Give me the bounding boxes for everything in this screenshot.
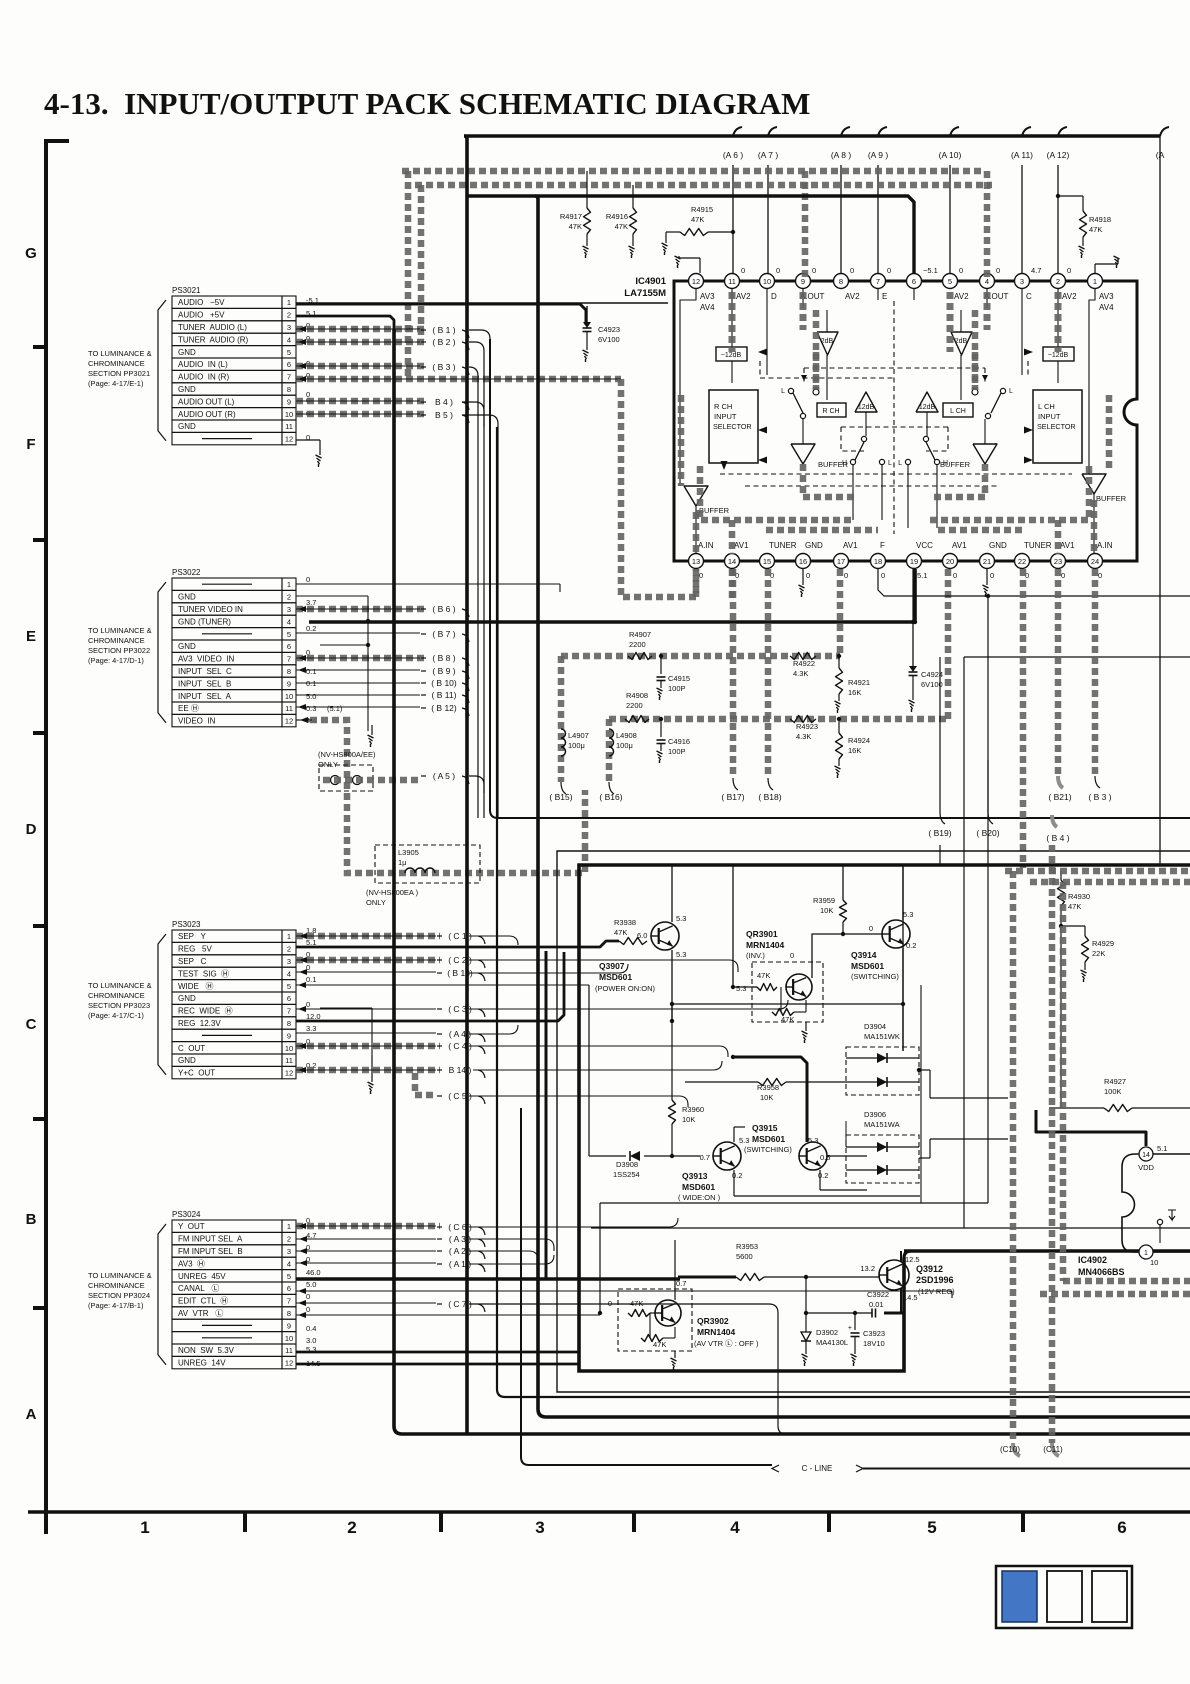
shield trace IC4902 dashed frame	[1040, 882, 1190, 1294]
svg-text:8: 8	[287, 667, 291, 676]
capacitor C4923	[583, 306, 621, 362]
svg-text:10: 10	[285, 410, 293, 419]
transistor QR3901 dashed module	[752, 962, 823, 1022]
svg-text:Q3915: Q3915	[752, 1123, 778, 1133]
svg-text:D: D	[771, 292, 777, 301]
svg-text:( B 10): ( B 10)	[431, 678, 457, 688]
label TO LUMINANCE PP3023	[88, 981, 152, 1020]
wire pin9 to B10	[296, 682, 420, 684]
svg-text:2: 2	[347, 1518, 356, 1537]
svg-text:GND: GND	[178, 994, 196, 1003]
svg-text:R3938: R3938	[614, 918, 636, 927]
svg-text:Q3914: Q3914	[851, 950, 877, 960]
wire pin7 to C7	[296, 1300, 436, 1306]
svg-text:TO LUMINANCE &: TO LUMINANCE &	[88, 1271, 152, 1280]
node B9	[421, 666, 469, 679]
svg-text:47K: 47K	[691, 215, 704, 224]
svg-text:0: 0	[776, 266, 780, 275]
transistor Q3907	[651, 914, 686, 959]
svg-text:R4924: R4924	[848, 736, 870, 745]
svg-text:B 4 ): B 4 )	[435, 397, 453, 407]
amp 12dB left	[855, 392, 877, 412]
svg-text:19: 19	[910, 557, 918, 566]
svg-text:REC WIDE Ⓗ: REC WIDE Ⓗ	[178, 1007, 233, 1016]
svg-text:AV4: AV4	[700, 303, 715, 312]
svg-text:18: 18	[874, 557, 882, 566]
resistor R3938	[614, 918, 647, 945]
svg-text:( B16): ( B16)	[599, 792, 622, 802]
node A3	[437, 1234, 485, 1247]
svg-text:12: 12	[285, 1359, 293, 1368]
wire A5 tail	[469, 776, 484, 793]
connector PS3023	[158, 920, 296, 1079]
wire reg box top	[904, 1251, 1190, 1258]
svg-text:10: 10	[285, 692, 293, 701]
svg-text:5: 5	[287, 348, 291, 357]
svg-text:20: 20	[946, 557, 954, 566]
shield trace drop to pin4	[972, 171, 987, 395]
svg-text:(12V REG): (12V REG)	[918, 1287, 955, 1296]
svg-text:0: 0	[1061, 571, 1065, 580]
svg-text:2: 2	[287, 945, 291, 954]
svg-text:12dB: 12dB	[858, 404, 875, 411]
svg-text:REG 12.3V: REG 12.3V	[178, 1019, 221, 1028]
svg-text:PS3022: PS3022	[172, 568, 201, 577]
svg-text:10: 10	[1150, 1258, 1158, 1267]
svg-text:FM INPUT SEL B: FM INPUT SEL B	[178, 1247, 243, 1256]
svg-text:D3904: D3904	[864, 1022, 886, 1031]
svg-text:AUDIO OUT (R): AUDIO OUT (R)	[178, 410, 236, 419]
svg-text:3: 3	[287, 323, 291, 332]
svg-text:0: 0	[953, 571, 957, 580]
shield trace top horizontal 2	[415, 182, 992, 189]
diode D3906 module	[846, 1110, 930, 1183]
svg-text:0: 0	[850, 266, 854, 275]
svg-text:18V10: 18V10	[863, 1339, 885, 1348]
svg-text:AUDIO +5V: AUDIO +5V	[178, 311, 225, 320]
wire VCC feed top	[467, 196, 914, 274]
svg-text:100μ: 100μ	[568, 741, 585, 750]
svg-text:( B 12): ( B 12)	[431, 703, 457, 713]
svg-text:AV4: AV4	[1099, 303, 1114, 312]
node B13	[437, 968, 485, 981]
svg-text:10K: 10K	[682, 1115, 695, 1124]
shielded wire pin12 VIDEO IN	[296, 717, 585, 873]
wire pin4 to A1	[296, 1260, 436, 1266]
svg-text:1: 1	[1144, 1250, 1148, 1257]
svg-text:100P: 100P	[668, 684, 686, 693]
svg-text:INPUT: INPUT	[714, 412, 737, 421]
svg-text:SECTION PP3024: SECTION PP3024	[88, 1291, 150, 1300]
svg-text:( B20): ( B20)	[976, 828, 999, 838]
svg-text:R4908: R4908	[626, 691, 648, 700]
svg-text:0: 0	[306, 433, 310, 442]
node B4 lower	[1046, 815, 1069, 843]
node C6	[437, 1222, 485, 1235]
svg-text:AV1: AV1	[734, 541, 749, 550]
wire pin19 VCC stub	[912, 569, 915, 622]
node B21	[1048, 792, 1071, 802]
wire B5 tail	[462, 415, 498, 818]
wire EE line right	[921, 657, 1190, 1228]
svg-text:46.0: 46.0	[306, 1268, 321, 1277]
svg-text:7: 7	[876, 277, 880, 286]
box outer thin	[557, 851, 1190, 1392]
svg-text:3: 3	[535, 1518, 544, 1537]
svg-text:5.3: 5.3	[676, 950, 686, 959]
svg-text:(Page: 4-17/E-1): (Page: 4-17/E-1)	[88, 379, 144, 388]
svg-text:TUNER VIDEO IN: TUNER VIDEO IN	[178, 605, 243, 614]
svg-text:R4915: R4915	[691, 205, 713, 214]
wire pin8 REG12.3 heavy	[296, 952, 564, 1021]
QR3901 lower resistor 47K	[772, 987, 806, 1024]
svg-text:0: 0	[990, 571, 994, 580]
svg-text:C3922: C3922	[867, 1290, 889, 1299]
svg-text:16K: 16K	[848, 688, 861, 697]
svg-text:0.1: 0.1	[306, 667, 316, 676]
svg-text:L: L	[888, 460, 892, 467]
svg-text:12: 12	[692, 277, 700, 286]
IC4902 pin 14	[1138, 1144, 1167, 1172]
buffer left mid	[791, 444, 849, 469]
svg-text:(POWER ON:ON): (POWER ON:ON)	[595, 984, 655, 993]
svg-text:R3953: R3953	[736, 1242, 758, 1251]
wire pin11 NON SW heavy	[296, 1351, 579, 1354]
IC4902 pin 1	[1139, 1245, 1158, 1267]
svg-text:UNREG 14V: UNREG 14V	[178, 1359, 226, 1368]
column numbers	[140, 1518, 1126, 1537]
svg-text:SEP Y: SEP Y	[178, 932, 207, 941]
svg-text:0: 0	[869, 924, 873, 933]
svg-text:3.0: 3.0	[306, 1336, 316, 1345]
svg-text:1: 1	[140, 1518, 149, 1537]
svg-text:47K: 47K	[614, 928, 627, 937]
svg-text:100P: 100P	[668, 747, 686, 756]
svg-text:4: 4	[287, 335, 291, 344]
svg-text:R4918: R4918	[1089, 215, 1111, 224]
svg-text:GND: GND	[178, 642, 196, 651]
svg-text:Q3913: Q3913	[682, 1171, 708, 1181]
svg-text:11: 11	[285, 1056, 293, 1065]
svg-text:FM INPUT SEL A: FM INPUT SEL A	[178, 1235, 243, 1244]
svg-text:AV3: AV3	[1099, 292, 1114, 301]
resistor R4923	[790, 716, 818, 742]
shield trace right top pair	[1005, 871, 1190, 882]
IC4901 shield snake left	[681, 292, 878, 554]
svg-text:GND: GND	[178, 422, 196, 431]
svg-text:(A 10): (A 10)	[939, 150, 962, 160]
page indicator boxes	[996, 1566, 1132, 1628]
shield trace C10 drop	[1013, 871, 1020, 1456]
svg-text:L: L	[781, 388, 785, 395]
node B1	[421, 325, 469, 338]
node B17	[721, 569, 744, 802]
svg-text:2dB: 2dB	[955, 338, 968, 345]
svg-text:VDD: VDD	[1138, 1163, 1154, 1172]
svg-text:3: 3	[287, 1247, 291, 1256]
shield trace R-ch loop to pin13	[621, 379, 696, 597]
svg-text:22: 22	[1018, 557, 1026, 566]
svg-text:0: 0	[741, 266, 745, 275]
svg-text:AV2: AV2	[954, 292, 969, 301]
shielded wire pin3 to B1	[296, 326, 424, 332]
svg-text:3: 3	[287, 605, 291, 614]
box inner heavy	[579, 865, 1190, 1371]
svg-text:21: 21	[983, 557, 991, 566]
svg-text:R4917: R4917	[560, 212, 582, 221]
node B6	[421, 604, 469, 617]
wire pin8 to B9	[296, 667, 420, 673]
svg-text:( B 3 ): ( B 3 )	[1088, 792, 1111, 802]
svg-text:MA151WA: MA151WA	[864, 1120, 900, 1129]
label IC4902 MN4066BS	[1078, 1255, 1125, 1277]
svg-text:D: D	[26, 821, 37, 838]
svg-text:( B 8 ): ( B 8 )	[432, 653, 455, 663]
svg-text:7: 7	[287, 655, 291, 664]
svg-text:MSD601: MSD601	[682, 1182, 715, 1192]
node B2	[421, 337, 469, 350]
svg-text:0.01: 0.01	[869, 1300, 884, 1309]
svg-text:AUDIO IN (L): AUDIO IN (L)	[178, 360, 228, 369]
wire Q3913 emitter	[734, 1170, 920, 1196]
svg-text:TO LUMINANCE &: TO LUMINANCE &	[88, 981, 152, 990]
svg-text:0: 0	[959, 266, 963, 275]
svg-text:4: 4	[985, 277, 989, 286]
svg-text:MSD601: MSD601	[752, 1134, 785, 1144]
svg-text:15: 15	[763, 557, 771, 566]
svg-text:14: 14	[728, 557, 736, 566]
left border rail	[46, 139, 69, 1534]
svg-text:10: 10	[285, 1044, 293, 1053]
svg-text:C4916: C4916	[668, 737, 690, 746]
svg-text:TUNER: TUNER	[1024, 541, 1052, 550]
capacitor C4916	[657, 719, 691, 763]
svg-text:NON SW 5.3V: NON SW 5.3V	[178, 1346, 235, 1355]
svg-text:2SD1996: 2SD1996	[916, 1275, 954, 1285]
svg-text:5: 5	[927, 1518, 936, 1537]
shielded wire pin10 to C4	[296, 1043, 440, 1049]
svg-text:6: 6	[287, 360, 291, 369]
svg-text:2: 2	[287, 1235, 291, 1244]
capacitor C4915	[657, 656, 691, 700]
svg-text:47K: 47K	[569, 222, 582, 231]
wire pin2 REG5V heavy	[296, 941, 619, 947]
svg-text:( B 2 ): ( B 2 )	[432, 337, 455, 347]
svg-text:100K: 100K	[1104, 1087, 1122, 1096]
svg-text:47K: 47K	[653, 1340, 666, 1349]
svg-text:TO LUMINANCE &: TO LUMINANCE &	[88, 349, 152, 358]
svg-text:C: C	[26, 1016, 37, 1033]
resistor R4921	[835, 654, 871, 713]
node B11	[421, 690, 469, 703]
svg-text:A.IN: A.IN	[1097, 541, 1113, 550]
svg-text:CHROMINANCE: CHROMINANCE	[88, 991, 145, 1000]
svg-text:0: 0	[306, 1292, 310, 1301]
node B3	[421, 362, 469, 375]
svg-text:(5.1): (5.1)	[327, 704, 343, 713]
svg-text:0: 0	[306, 1000, 310, 1009]
svg-text:(A 8 ): (A 8 )	[831, 150, 851, 160]
svg-text:10K: 10K	[760, 1093, 773, 1102]
svg-text:(A 6 ): (A 6 )	[723, 150, 743, 160]
wire B1 tail	[469, 330, 490, 369]
svg-text:47K: 47K	[1068, 902, 1081, 911]
svg-text:8: 8	[287, 1019, 291, 1028]
buffer left outer	[684, 486, 730, 515]
IC4901 selector arrows	[721, 349, 1034, 471]
svg-text:INPUT: INPUT	[1038, 412, 1061, 421]
shielded wire pin3 to C2	[296, 957, 440, 963]
node A2	[437, 1246, 485, 1259]
svg-text:0: 0	[996, 266, 1000, 275]
svg-text:R4929: R4929	[1092, 939, 1114, 948]
svg-text:L: L	[898, 460, 902, 467]
svg-text:D3906: D3906	[864, 1110, 886, 1119]
svg-text:1: 1	[287, 580, 291, 589]
wire Q3914 emitter	[672, 948, 905, 1051]
buffer right outer	[1082, 474, 1127, 503]
svg-text:AV1: AV1	[952, 541, 967, 550]
wire PS3021 pin2 +5.1V	[296, 316, 394, 329]
svg-text:(NV-HS800A/EE): (NV-HS800A/EE)	[318, 750, 376, 759]
svg-text:( B19): ( B19)	[928, 828, 951, 838]
svg-text:Y+C OUT: Y+C OUT	[178, 1069, 215, 1078]
PS3022 pin voltages	[306, 575, 343, 725]
svg-text:VIDEO IN: VIDEO IN	[178, 717, 216, 726]
svg-text:5: 5	[287, 1272, 291, 1281]
svg-text:( WIDE:ON ): ( WIDE:ON )	[678, 1193, 721, 1202]
svg-text:0: 0	[699, 571, 703, 580]
svg-text:(SWITCHING): (SWITCHING)	[744, 1145, 792, 1154]
svg-text:5.3: 5.3	[676, 914, 686, 923]
svg-text:−12dB: −12dB	[1048, 352, 1069, 359]
wire PS3022 pin1	[296, 584, 560, 592]
svg-text:GND: GND	[178, 385, 196, 394]
svg-text:0: 0	[608, 1299, 612, 1308]
svg-text:SECTION PP3022: SECTION PP3022	[88, 646, 150, 655]
svg-text:4: 4	[730, 1518, 740, 1537]
svg-text:L4908: L4908	[616, 731, 637, 740]
wire Q3915 base	[827, 1155, 867, 1157]
svg-text:1: 1	[287, 932, 291, 941]
svg-text:TO LUMINANCE &: TO LUMINANCE &	[88, 626, 152, 635]
buffer right mid	[940, 444, 997, 469]
svg-text:C3923: C3923	[863, 1329, 885, 1338]
PS3023 ground	[320, 1008, 374, 1094]
diode D3904 module	[846, 1022, 930, 1095]
op-amp IC4901 body	[674, 281, 1137, 561]
svg-text:H: H	[943, 460, 948, 467]
svg-text:SECTION PP3023: SECTION PP3023	[88, 1001, 150, 1010]
node C1	[437, 931, 485, 944]
svg-text:MA4130L: MA4130L	[816, 1338, 848, 1347]
svg-text:SELECTOR: SELECTOR	[1037, 422, 1076, 431]
bottom ruler	[28, 1510, 1190, 1514]
wire box feed verticals	[674, 865, 903, 1051]
svg-text:16: 16	[799, 557, 807, 566]
svg-text:A: A	[26, 1406, 37, 1423]
svg-text:BUFFER: BUFFER	[1096, 494, 1127, 503]
svg-text:AV3: AV3	[700, 292, 715, 301]
svg-text:2200: 2200	[629, 640, 646, 649]
svg-text:5: 5	[287, 630, 291, 639]
shielded wire pin3 to B6	[296, 606, 424, 612]
svg-text:5: 5	[948, 277, 952, 286]
svg-text:0: 0	[1067, 266, 1071, 275]
wire pin4 to B13	[296, 969, 436, 975]
svg-text:MRN1404: MRN1404	[746, 940, 785, 950]
svg-text:10K: 10K	[820, 906, 833, 915]
svg-text:C4915: C4915	[668, 674, 690, 683]
wire pin12 UNREG14 heavy	[296, 1363, 579, 1366]
shield pin23 drop	[1058, 569, 1063, 788]
switch left	[781, 388, 806, 419]
node C4	[437, 1041, 485, 1054]
svg-text:EDIT CTL Ⓗ: EDIT CTL Ⓗ	[178, 1297, 228, 1306]
svg-text:9: 9	[287, 679, 291, 688]
bus vertical x497 to y1397 bus	[497, 427, 1190, 1397]
NV-HS800A/EE jack dashed box	[318, 750, 420, 791]
svg-text:−5.1: −5.1	[923, 266, 938, 275]
connector PS3021	[158, 286, 296, 445]
svg-text:(Page: 4-17/B-1): (Page: 4-17/B-1)	[88, 1301, 144, 1310]
IC4901 shield snake right	[930, 292, 1109, 554]
node B3 lower	[1088, 792, 1111, 802]
PS3024 bracket tails	[469, 1218, 786, 1434]
svg-text:5.0: 5.0	[306, 1280, 316, 1289]
svg-text:0.7: 0.7	[676, 1279, 686, 1288]
wire pin10 to B11	[296, 694, 420, 696]
svg-text:2: 2	[287, 311, 291, 320]
svg-text:6: 6	[287, 1284, 291, 1293]
svg-text:WIDE Ⓗ: WIDE Ⓗ	[178, 982, 214, 991]
IC4901 top pin labels	[700, 292, 1114, 312]
svg-text:4.3K: 4.3K	[796, 732, 811, 741]
svg-text:E: E	[882, 292, 887, 301]
svg-text:IC4901: IC4901	[635, 276, 666, 287]
svg-text:MA151WK: MA151WK	[864, 1032, 900, 1041]
L CH INPUT SELECTOR block	[1033, 390, 1082, 463]
svg-text:( B 4 ): ( B 4 )	[1046, 833, 1069, 843]
svg-text:F: F	[26, 436, 35, 453]
svg-text:AV3 VIDEO IN: AV3 VIDEO IN	[178, 655, 235, 664]
svg-text:5600: 5600	[736, 1252, 753, 1261]
svg-text:5.1: 5.1	[917, 571, 927, 580]
svg-text:LA7155M: LA7155M	[624, 288, 666, 299]
shield trace C11 drop	[1052, 845, 1059, 1456]
node B19	[928, 657, 951, 865]
resistor R3958	[685, 1079, 846, 1103]
shielded wire pin7 to B8	[296, 655, 424, 661]
svg-text:11: 11	[285, 704, 293, 713]
svg-text:C OUT: C OUT	[178, 1044, 205, 1053]
svg-text:( B 6 ): ( B 6 )	[432, 604, 455, 614]
wire C-LINE label	[772, 1464, 1190, 1473]
svg-text:0.2: 0.2	[306, 624, 316, 633]
svg-text:0.5: 0.5	[820, 1153, 830, 1162]
QR3902 ground	[671, 1351, 677, 1370]
svg-text:L: L	[1009, 388, 1013, 395]
wire pin5 WIDE long	[296, 982, 589, 988]
svg-text:4: 4	[287, 969, 291, 978]
svg-text:(INV.): (INV.)	[746, 951, 765, 960]
svg-text:0.1: 0.1	[306, 975, 316, 984]
label TO LUMINANCE PP3022	[88, 626, 152, 665]
wire D3906 right	[930, 1139, 1008, 1158]
svg-text:4: 4	[287, 617, 291, 626]
amp 12dB right	[916, 392, 938, 412]
svg-text:0.3: 0.3	[306, 704, 316, 713]
